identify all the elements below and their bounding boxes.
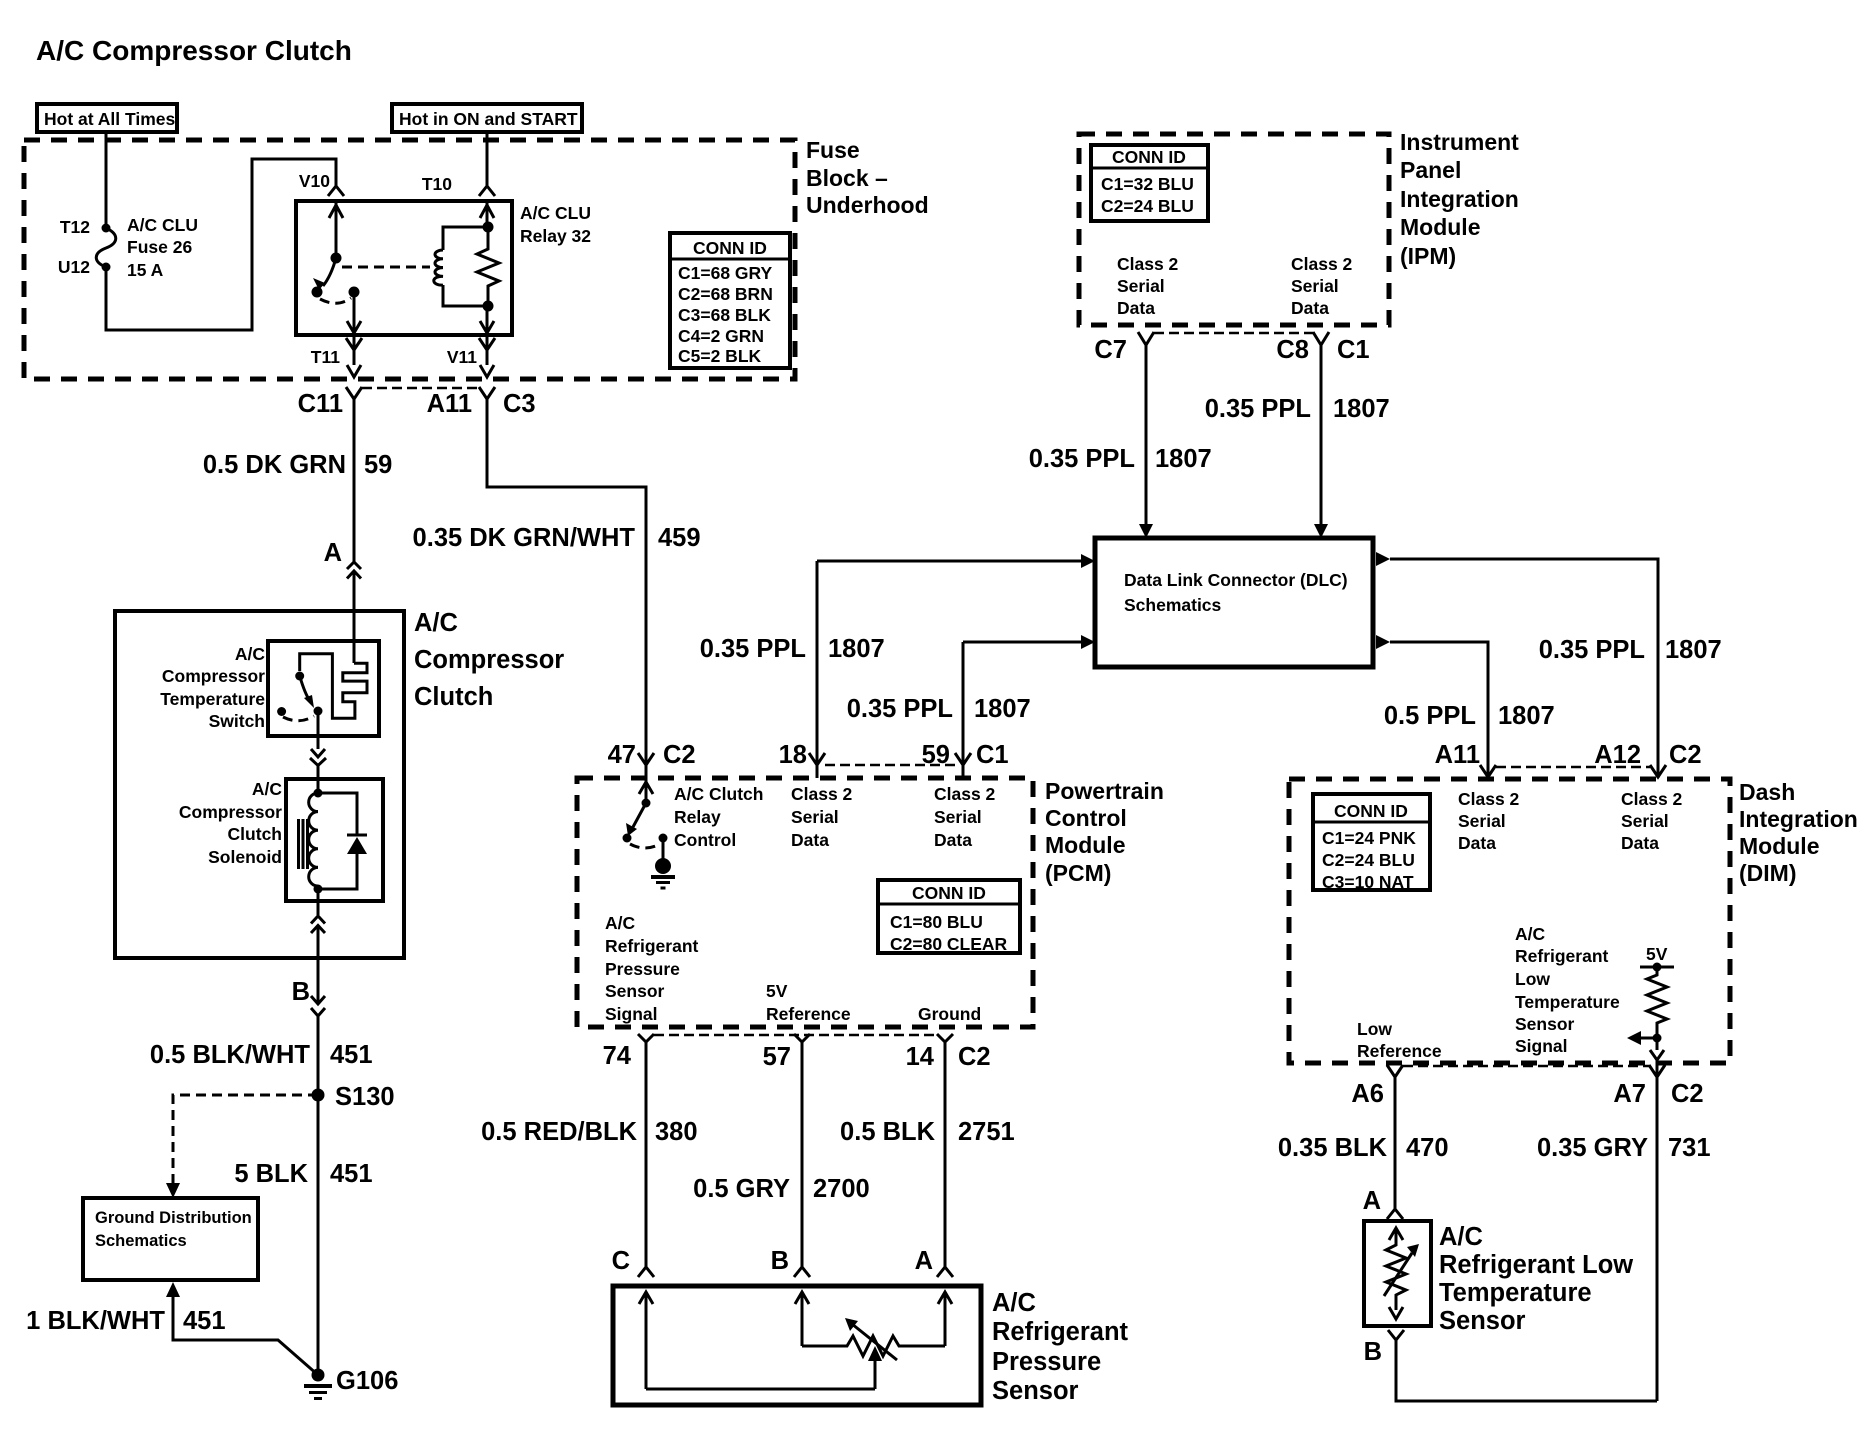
svg-text:Class 2: Class 2 — [1621, 789, 1683, 809]
svg-text:2700: 2700 — [813, 1175, 870, 1203]
svg-text:T12: T12 — [60, 217, 90, 237]
svg-text:C1=68 GRY: C1=68 GRY — [678, 263, 773, 283]
svg-text:Clutch: Clutch — [414, 683, 493, 711]
svg-text:Relay: Relay — [674, 807, 721, 827]
svg-text:C2: C2 — [1669, 741, 1702, 769]
svg-text:Ground Distribution: Ground Distribution — [95, 1209, 252, 1227]
svg-text:C3=68 BLK: C3=68 BLK — [678, 305, 771, 325]
svg-text:C2: C2 — [1671, 1080, 1704, 1108]
svg-text:459: 459 — [658, 524, 701, 552]
svg-text:Serial: Serial — [1117, 276, 1165, 296]
svg-text:451: 451 — [330, 1041, 373, 1069]
svg-text:C2: C2 — [958, 1043, 991, 1071]
svg-text:0.5 DK GRN: 0.5 DK GRN — [203, 451, 346, 479]
svg-text:Serial: Serial — [1621, 811, 1669, 831]
svg-text:CONN ID: CONN ID — [912, 883, 986, 903]
svg-text:0.5 BLK/WHT: 0.5 BLK/WHT — [150, 1041, 311, 1069]
svg-text:Class 2: Class 2 — [1458, 789, 1520, 809]
svg-text:C2=80 CLEAR: C2=80 CLEAR — [890, 934, 1008, 954]
svg-text:Class 2: Class 2 — [791, 784, 853, 804]
svg-text:5V: 5V — [1646, 944, 1668, 964]
svg-text:0.35 DK GRN/WHT: 0.35 DK GRN/WHT — [413, 524, 636, 552]
svg-text:Signal: Signal — [605, 1004, 658, 1024]
svg-text:C3: C3 — [503, 390, 536, 418]
svg-text:Pressure: Pressure — [605, 959, 680, 979]
svg-text:380: 380 — [655, 1118, 698, 1146]
svg-text:74: 74 — [603, 1042, 632, 1070]
svg-text:V11: V11 — [447, 347, 477, 367]
svg-text:CONN ID: CONN ID — [1112, 147, 1186, 167]
svg-text:C8: C8 — [1276, 336, 1309, 364]
svg-text:Serial: Serial — [791, 807, 839, 827]
svg-text:1807: 1807 — [828, 635, 885, 663]
svg-text:C1=24 PNK: C1=24 PNK — [1322, 828, 1416, 848]
svg-text:Relay 32: Relay 32 — [520, 226, 591, 246]
svg-text:Clutch: Clutch — [228, 824, 282, 844]
svg-text:Low: Low — [1515, 969, 1550, 989]
svg-text:CONN ID: CONN ID — [693, 238, 767, 258]
svg-text:Underhood: Underhood — [806, 192, 929, 218]
svg-text:Module: Module — [1739, 833, 1820, 859]
svg-text:14: 14 — [906, 1043, 935, 1071]
svg-text:C1: C1 — [1337, 336, 1370, 364]
svg-text:Serial: Serial — [1291, 276, 1339, 296]
svg-text:Serial: Serial — [1458, 811, 1506, 831]
svg-text:0.35 PPL: 0.35 PPL — [1539, 636, 1645, 664]
svg-text:Compressor: Compressor — [162, 666, 265, 686]
svg-text:A7: A7 — [1613, 1080, 1646, 1108]
svg-text:Control: Control — [1045, 805, 1127, 831]
svg-text:A/C CLU: A/C CLU — [520, 203, 591, 223]
svg-text:A/C Clutch: A/C Clutch — [674, 784, 763, 804]
svg-text:C1=32 BLU: C1=32 BLU — [1101, 174, 1194, 194]
svg-text:A11: A11 — [427, 390, 472, 418]
svg-text:C11: C11 — [298, 390, 343, 418]
svg-text:Class 2: Class 2 — [1291, 254, 1353, 274]
svg-text:(IPM): (IPM) — [1400, 243, 1456, 269]
svg-text:T11: T11 — [311, 347, 340, 367]
svg-text:Temperature: Temperature — [1439, 1279, 1592, 1307]
svg-text:15 A: 15 A — [127, 260, 164, 280]
svg-text:1807: 1807 — [1498, 702, 1555, 730]
svg-text:A: A — [324, 539, 342, 567]
svg-text:Ground: Ground — [918, 1004, 981, 1024]
svg-text:B: B — [771, 1247, 789, 1275]
svg-text:Data: Data — [1291, 298, 1329, 318]
svg-text:1807: 1807 — [1665, 636, 1722, 664]
svg-text:T10: T10 — [422, 174, 452, 194]
svg-text:18: 18 — [779, 741, 807, 769]
svg-text:C: C — [612, 1247, 630, 1275]
svg-text:Signal: Signal — [1515, 1036, 1568, 1056]
svg-text:Integration: Integration — [1400, 186, 1519, 212]
svg-text:Data Link Connector (DLC): Data Link Connector (DLC) — [1124, 570, 1348, 590]
svg-text:470: 470 — [1406, 1134, 1449, 1162]
svg-text:Temperature: Temperature — [160, 689, 265, 709]
svg-text:Module: Module — [1045, 832, 1126, 858]
svg-text:A/C: A/C — [605, 913, 636, 933]
svg-text:A: A — [915, 1247, 933, 1275]
svg-text:Solenoid: Solenoid — [208, 847, 282, 867]
svg-text:0.35 GRY: 0.35 GRY — [1537, 1134, 1648, 1162]
svg-text:Powertrain: Powertrain — [1045, 778, 1164, 804]
svg-text:V10: V10 — [299, 171, 330, 191]
svg-text:Dash: Dash — [1739, 779, 1795, 805]
svg-text:A/C: A/C — [1515, 924, 1546, 944]
svg-text:Hot in ON and START: Hot in ON and START — [399, 109, 578, 129]
svg-text:Schematics: Schematics — [1124, 595, 1222, 615]
svg-text:C1=80 BLU: C1=80 BLU — [890, 912, 983, 932]
svg-text:Instrument: Instrument — [1400, 129, 1519, 155]
svg-text:0.5 RED/BLK: 0.5 RED/BLK — [481, 1118, 637, 1146]
svg-text:Data: Data — [1117, 298, 1155, 318]
svg-text:Refrigerant: Refrigerant — [605, 936, 699, 956]
svg-text:Compressor: Compressor — [414, 646, 564, 674]
svg-text:731: 731 — [1668, 1134, 1711, 1162]
svg-text:57: 57 — [763, 1043, 791, 1071]
svg-text:0.5 PPL: 0.5 PPL — [1384, 702, 1476, 730]
svg-text:A6: A6 — [1351, 1080, 1384, 1108]
svg-text:A/C: A/C — [235, 644, 266, 664]
svg-text:U12: U12 — [58, 257, 90, 277]
svg-text:0.35 PPL: 0.35 PPL — [700, 635, 806, 663]
svg-text:1807: 1807 — [1333, 395, 1390, 423]
svg-text:A/C: A/C — [992, 1289, 1036, 1317]
svg-text:Sensor: Sensor — [1439, 1307, 1526, 1335]
svg-text:0.35 BLK: 0.35 BLK — [1278, 1134, 1388, 1162]
svg-text:Temperature: Temperature — [1515, 992, 1620, 1012]
svg-text:451: 451 — [183, 1307, 226, 1335]
svg-text:B: B — [292, 978, 310, 1006]
svg-text:A/C CLU: A/C CLU — [127, 215, 198, 235]
svg-text:Refrigerant: Refrigerant — [1515, 946, 1609, 966]
svg-text:A/C: A/C — [252, 779, 283, 799]
svg-text:A/C: A/C — [1439, 1223, 1483, 1251]
svg-text:A12: A12 — [1594, 741, 1641, 769]
svg-text:C2=24 BLU: C2=24 BLU — [1322, 850, 1415, 870]
svg-text:A/C Compressor Clutch: A/C Compressor Clutch — [36, 35, 352, 66]
svg-text:Block –: Block – — [806, 165, 888, 191]
svg-text:Switch: Switch — [209, 711, 265, 731]
svg-text:Hot at All Times: Hot at All Times — [44, 109, 176, 129]
svg-text:59: 59 — [364, 451, 392, 479]
svg-text:Fuse 26: Fuse 26 — [127, 237, 192, 257]
svg-text:A/C: A/C — [414, 609, 458, 637]
svg-text:47: 47 — [608, 741, 636, 769]
svg-text:C5=2 BLK: C5=2 BLK — [678, 346, 762, 366]
svg-text:A: A — [1363, 1187, 1381, 1215]
svg-text:C4=2 GRN: C4=2 GRN — [678, 326, 764, 346]
svg-text:1807: 1807 — [974, 695, 1031, 723]
svg-text:Reference: Reference — [1357, 1041, 1442, 1061]
svg-text:Sensor: Sensor — [1515, 1014, 1575, 1034]
svg-text:CONN ID: CONN ID — [1334, 801, 1408, 821]
svg-text:S130: S130 — [335, 1083, 395, 1111]
svg-text:C2=68 BRN: C2=68 BRN — [678, 284, 773, 304]
svg-text:G106: G106 — [336, 1367, 398, 1395]
svg-text:C1: C1 — [976, 741, 1009, 769]
svg-text:Data: Data — [1458, 833, 1496, 853]
svg-text:Reference: Reference — [766, 1004, 851, 1024]
svg-text:451: 451 — [330, 1160, 373, 1188]
svg-text:Serial: Serial — [934, 807, 982, 827]
svg-text:Compressor: Compressor — [179, 802, 282, 822]
svg-text:0.5 BLK: 0.5 BLK — [840, 1118, 936, 1146]
svg-text:B: B — [1364, 1338, 1382, 1366]
svg-text:2751: 2751 — [958, 1118, 1015, 1146]
svg-text:Data: Data — [934, 830, 972, 850]
svg-text:Panel: Panel — [1400, 157, 1461, 183]
svg-text:0.35 PPL: 0.35 PPL — [847, 695, 953, 723]
svg-text:Low: Low — [1357, 1019, 1392, 1039]
svg-text:0.5 GRY: 0.5 GRY — [693, 1175, 790, 1203]
svg-text:5V: 5V — [766, 981, 788, 1001]
svg-text:C7: C7 — [1094, 336, 1127, 364]
svg-text:Class 2: Class 2 — [1117, 254, 1179, 274]
svg-text:Control: Control — [674, 830, 736, 850]
svg-text:Data: Data — [791, 830, 829, 850]
svg-text:Schematics: Schematics — [95, 1232, 187, 1250]
svg-text:Sensor: Sensor — [992, 1377, 1079, 1405]
svg-text:Class 2: Class 2 — [934, 784, 996, 804]
svg-text:0.35 PPL: 0.35 PPL — [1029, 445, 1135, 473]
svg-text:A11: A11 — [1435, 741, 1480, 769]
svg-text:C2=24 BLU: C2=24 BLU — [1101, 196, 1194, 216]
svg-text:Data: Data — [1621, 833, 1659, 853]
svg-text:Refrigerant Low: Refrigerant Low — [1439, 1251, 1633, 1279]
svg-text:(DIM): (DIM) — [1739, 860, 1796, 886]
svg-text:C2: C2 — [663, 741, 696, 769]
svg-text:1807: 1807 — [1155, 445, 1212, 473]
svg-text:Pressure: Pressure — [992, 1348, 1101, 1376]
svg-text:Refrigerant: Refrigerant — [992, 1318, 1129, 1346]
svg-text:Fuse: Fuse — [806, 137, 860, 163]
svg-text:Integration: Integration — [1739, 806, 1858, 832]
svg-text:0.35 PPL: 0.35 PPL — [1205, 395, 1311, 423]
svg-text:Sensor: Sensor — [605, 981, 665, 1001]
svg-text:(PCM): (PCM) — [1045, 860, 1111, 886]
svg-text:Module: Module — [1400, 214, 1481, 240]
svg-text:C3=10 NAT: C3=10 NAT — [1322, 872, 1414, 892]
svg-text:1 BLK/WHT: 1 BLK/WHT — [26, 1307, 165, 1335]
svg-text:5 BLK: 5 BLK — [234, 1160, 308, 1188]
